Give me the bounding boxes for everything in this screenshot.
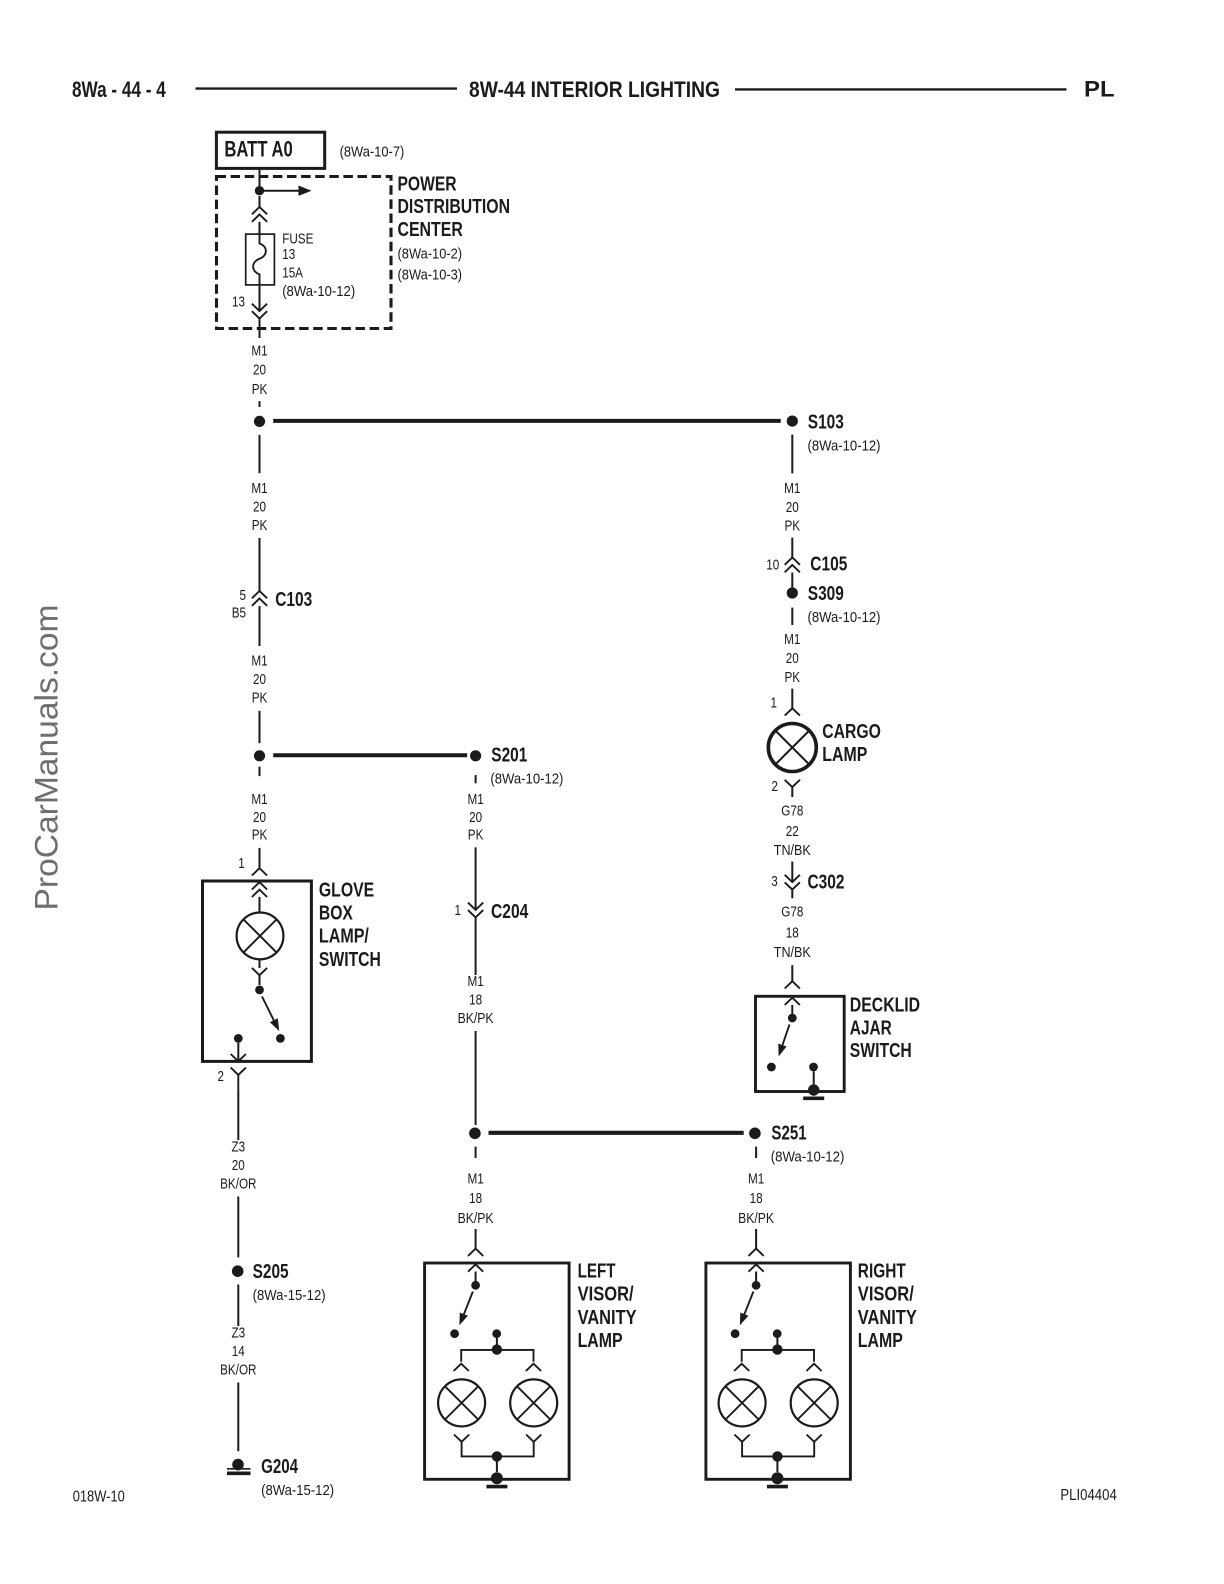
wire below glove box [237,1090,239,1140]
svg-text:PK: PK [252,517,268,534]
wire fork to contact [259,975,261,985]
svg-text:PLI04404: PLI04404 [1060,1487,1116,1504]
header rule right [735,88,1067,90]
connector C302 chevrons [785,875,800,890]
svg-text:15A: 15A [282,264,303,281]
fork above switch contact [252,968,267,975]
svg-text:18: 18 [786,925,799,942]
entry chevron inside visor box [468,1264,483,1271]
cargo lamp [768,724,816,772]
connector C204 chevrons [468,903,483,918]
vanity lamp 1 [719,1379,766,1426]
svg-text:(8Wa-15-12): (8Wa-15-12) [253,1287,326,1304]
svg-text:14: 14 [232,1343,245,1360]
wire contact to lamp bus [776,1338,778,1345]
wire to fuse [259,222,261,234]
connector fork below glove box [231,1068,246,1075]
svg-text:20: 20 [786,650,799,667]
svg-text:5: 5 [240,587,247,604]
wire to left visor lamp [475,1229,477,1249]
wire label Z3 20 BK/OR [220,1138,257,1192]
wire to right visor lamp [755,1229,757,1249]
connector fork at glove box pin 1 [252,868,267,875]
svg-text:(8Wa-10-12): (8Wa-10-12) [490,771,563,788]
svg-text:Z3: Z3 [231,1324,245,1341]
left visor/vanity lamp box [425,1263,569,1479]
wire contact to ground [813,1071,815,1084]
wire label M1 20 PK [784,480,800,535]
svg-text:BK/OR: BK/OR [220,1176,257,1193]
wire fuse to lower connector [259,285,261,311]
svg-text:8W-44 INTERIOR LIGHTING: 8W-44 INTERIOR LIGHTING [469,77,720,102]
power distribution center dashed box [217,177,392,329]
svg-text:8Wa - 44 - 4: 8Wa - 44 - 4 [72,77,166,102]
wire to C204 [475,847,477,910]
fork below lamp 2 [807,1435,822,1442]
svg-text:1: 1 [455,902,462,919]
svg-text:(8Wa-10-3): (8Wa-10-3) [398,267,463,284]
vanity lamp 2 [791,1379,838,1426]
svg-text:M1: M1 [784,480,800,497]
connector fork at left visor pin [468,1249,483,1256]
wire dash below junction [475,1147,477,1158]
glove box lamp/switch box [203,881,312,1061]
switch contact dot left [234,1034,243,1043]
ground at visor box [767,1472,788,1486]
svg-text:DISTRIBUTION: DISTRIBUTION [398,196,511,218]
vanity lamp 1 [438,1379,485,1426]
label LEFT VISOR/ VANITY LAMP [578,1261,638,1353]
label CARGO LAMP [822,721,881,766]
svg-text:POWER: POWER [398,173,458,195]
label GLOVE BOX LAMP/ SWITCH [319,880,381,971]
wire S103 branch horizontal [273,419,781,423]
svg-text:20: 20 [232,1157,245,1174]
svg-text:(8Wa-10-12): (8Wa-10-12) [282,283,355,300]
svg-text:2: 2 [772,778,779,795]
pin labels 5 B5 [232,587,246,622]
svg-text:LAMP: LAMP [858,1330,903,1352]
lamp bus junction dot [492,1344,502,1354]
svg-text:DECKLID: DECKLID [850,994,920,1016]
right visor/vanity lamp box [706,1263,851,1479]
svg-text:PK: PK [252,689,268,706]
wire to S251 junction [475,1031,477,1125]
wire dash below junction [259,767,261,777]
return junction dot [772,1451,782,1461]
wire to S201 junction [259,711,261,743]
wire to switch [755,1272,757,1282]
switch contact dot left [767,1063,776,1072]
fork to lamp 1 [734,1364,749,1371]
wire below S103 [791,435,793,474]
svg-text:GLOVE: GLOVE [319,880,374,902]
svg-text:S205: S205 [253,1261,289,1283]
splice S309 dot [787,587,798,598]
header rule left [196,87,458,89]
lamp bus junction dot [772,1344,782,1354]
svg-text:(8Wa-10-12): (8Wa-10-12) [808,437,881,454]
wire label G78 22 TN/BK [774,802,811,859]
vanity lamp 2 [510,1379,557,1426]
svg-text:S251: S251 [771,1122,806,1144]
svg-text:CENTER: CENTER [398,219,464,241]
wire label M1 20 PK [251,791,267,843]
svg-text:M1: M1 [251,652,267,669]
switch contact dot right [492,1329,501,1338]
wire below C204 [475,918,477,975]
label RIGHT VISOR/ VANITY LAMP [858,1261,918,1353]
svg-text:TN/BK: TN/BK [774,842,811,859]
wire to ground [776,1461,778,1472]
wire junction to connector [259,196,261,207]
lamp return bracket [462,1442,534,1457]
svg-text:20: 20 [469,809,482,826]
fork below lamp 1 [454,1435,469,1442]
wire dash below S251 [755,1147,757,1158]
exit chevron inside glove box [231,1054,246,1061]
lamp return bracket [742,1442,814,1457]
svg-text:(8Wa-10-7): (8Wa-10-7) [340,144,405,161]
wire to C105 [791,538,793,558]
svg-text:RIGHT: RIGHT [858,1261,906,1283]
wire below C103 [259,606,261,646]
svg-text:1: 1 [771,695,778,712]
wire to switch pivot [791,1005,793,1014]
svg-text:3: 3 [771,873,778,890]
wire label G78 18 TN/BK [774,904,811,961]
entry chevron inside decklid box [785,998,800,1005]
svg-text:13: 13 [232,294,245,311]
wire lamp to switch fork [259,959,261,968]
splice S205 dot [232,1265,244,1277]
svg-text:LAMP/: LAMP/ [319,926,369,948]
label DECKLID AJAR SWITCH [850,994,920,1062]
svg-text:VISOR/: VISOR/ [578,1284,634,1306]
connector fork at cargo lamp pin 2 [785,780,800,787]
wire label M1 20 PK [467,791,483,843]
switch contact dot right [773,1329,782,1338]
svg-text:M1: M1 [251,343,267,360]
wire label M1 20 PK [251,652,267,706]
svg-text:S201: S201 [491,745,527,767]
svg-text:LEFT: LEFT [578,1261,616,1283]
wire to decklid switch [791,965,793,981]
svg-text:(8Wa-10-2): (8Wa-10-2) [398,245,463,262]
fork below lamp 2 [526,1435,541,1442]
svg-text:CARGO: CARGO [822,721,881,743]
svg-text:PL: PL [1084,77,1115,102]
svg-text:G204: G204 [261,1456,299,1478]
svg-text:B5: B5 [232,604,246,621]
svg-text:LAMP: LAMP [822,744,867,766]
wire contact to lamp bus [496,1338,498,1345]
switch arm arrow [459,1292,473,1326]
junction dot S251 branch [469,1128,481,1140]
switch arm arrow [778,1024,789,1056]
wire to cargo lamp [791,689,793,709]
svg-text:(8Wa-15-12): (8Wa-15-12) [261,1482,334,1499]
connector fork at decklid switch [785,981,800,988]
svg-text:PK: PK [468,827,484,844]
ground at visor box [486,1472,507,1486]
svg-text:PK: PK [785,518,801,535]
wire to ground G204 [237,1383,239,1452]
label POWER DISTRIBUTION CENTER [398,173,511,283]
svg-text:BK/PK: BK/PK [738,1210,774,1227]
svg-text:VISOR/: VISOR/ [858,1284,914,1306]
svg-text:20: 20 [253,498,266,515]
svg-text:SWITCH: SWITCH [850,1040,912,1062]
wire label M1 20 PK [251,343,267,398]
svg-text:G78: G78 [781,904,803,921]
wire to C103 [259,538,261,591]
svg-text:BOX: BOX [319,903,354,925]
svg-text:PK: PK [252,827,268,844]
svg-text:SWITCH: SWITCH [319,949,381,971]
svg-text:C105: C105 [810,554,847,576]
connector chevrons below fuse [252,304,267,319]
svg-text:AJAR: AJAR [850,1017,892,1039]
svg-text:G78: G78 [781,802,803,819]
svg-text:BATT A0: BATT A0 [224,137,292,162]
wire dash below S201 [475,775,477,783]
connector C103 chevrons [252,591,267,606]
svg-text:20: 20 [253,362,266,379]
svg-text:22: 22 [786,823,799,840]
wire dash below S309 [791,608,793,625]
fork to lamp 1 [454,1364,469,1371]
svg-text:M1: M1 [748,1170,764,1187]
svg-text:20: 20 [786,499,799,516]
wire dash above junction [259,401,261,407]
switch contact dot left [450,1329,459,1338]
svg-text:TN/BK: TN/BK [774,944,811,961]
wire label M1 18 BK/PK [458,1170,494,1227]
battery feed box BATT A0 [216,132,324,168]
wire BATT to junction [259,168,261,190]
wire to glove box [259,848,261,868]
decklid ajar switch box [756,996,845,1091]
wire to S205 [237,1197,239,1258]
glove box lamp [237,913,284,960]
splice S103 dot [787,416,798,427]
svg-text:M1: M1 [251,480,267,497]
svg-text:C302: C302 [808,871,845,893]
svg-text:C204: C204 [491,901,529,923]
wire label M1 18 BK/PK [458,973,494,1027]
svg-text:Z3: Z3 [231,1138,245,1155]
svg-text:M1: M1 [784,631,800,648]
svg-text:018W-10: 018W-10 [73,1489,125,1506]
wire label M1 20 PK [251,480,267,534]
connector fork at right visor pin [749,1249,764,1256]
wire to ground [496,1461,498,1472]
svg-text:BK/OR: BK/OR [220,1362,257,1379]
wire out of PDC [259,319,261,339]
svg-text:ProCarManuals.com: ProCarManuals.com [29,605,65,911]
svg-text:20: 20 [253,809,266,826]
junction dot left S103 branch [254,416,265,427]
svg-text:18: 18 [469,1190,482,1207]
entry chevron inside visor box [749,1264,764,1271]
svg-text:M1: M1 [467,973,483,990]
fuse 13 15A [246,234,275,285]
wire contact to exit chevron [237,1043,239,1062]
svg-text:LAMP: LAMP [578,1330,623,1352]
lamp bus bracket [461,1350,533,1362]
connector chevrons above fuse [252,207,267,222]
svg-text:(8Wa-10-12): (8Wa-10-12) [808,609,881,626]
switch arm arrow [740,1292,754,1326]
switch contact dot right [276,1034,285,1043]
svg-text:M1: M1 [251,791,267,808]
wire below S205 [237,1285,239,1327]
svg-text:20: 20 [253,671,266,688]
svg-text:18: 18 [469,992,482,1009]
wire label M1 20 PK [784,631,800,686]
wire label Z3 14 BK/OR [220,1324,257,1378]
switch pivot dot [255,986,264,995]
switch contact dot left [731,1329,740,1338]
connector C105 chevrons [785,558,800,573]
ground at decklid box [803,1084,824,1098]
return junction dot [492,1451,502,1461]
svg-text:VANITY: VANITY [578,1307,638,1329]
wire below C105 [791,573,793,588]
wire below C302 [791,890,793,898]
wire S251 branch horizontal [489,1131,744,1135]
switch arm arrow [262,997,279,1032]
wire to glove lamp [259,897,261,913]
svg-text:BK/PK: BK/PK [458,1010,494,1027]
svg-text:10: 10 [766,556,779,573]
svg-text:13: 13 [282,246,295,263]
svg-text:M1: M1 [467,1170,483,1187]
switch pivot dot [752,1281,761,1290]
svg-text:VANITY: VANITY [858,1307,918,1329]
lamp bus bracket [742,1350,814,1362]
svg-text:S103: S103 [808,411,844,433]
junction dot left S201 branch [254,750,265,761]
splice S251 dot [749,1128,761,1140]
svg-text:M1: M1 [467,791,483,808]
svg-text:C103: C103 [275,589,312,611]
wire label M1 18 BK/PK [738,1170,774,1227]
svg-text:FUSE: FUSE [282,230,313,247]
fork to lamp 2 [806,1364,821,1371]
svg-text:PK: PK [252,381,268,398]
switch pivot dot [471,1281,480,1290]
connector chevrons inside glove box [252,882,267,897]
junction dot in PDC [255,186,264,195]
wire below cargo lamp [791,787,793,797]
ground G204 [227,1459,251,1474]
fuse labels FUSE 13 15A (8Wa-10-12) [282,230,355,300]
wire below junction [259,435,261,473]
switch pivot dot [788,1014,797,1023]
svg-text:(8Wa-10-12): (8Wa-10-12) [771,1149,845,1166]
svg-text:18: 18 [750,1190,763,1207]
fork below lamp 1 [735,1435,750,1442]
wire S201 branch horizontal [273,753,467,757]
svg-text:2: 2 [218,1068,225,1085]
fork to lamp 2 [526,1364,541,1371]
arrow feed to other circuits [260,186,312,196]
svg-text:1: 1 [238,855,245,872]
wire to C302 [791,862,793,883]
wire to switch [475,1272,477,1282]
svg-text:PK: PK [785,669,801,686]
svg-text:S309: S309 [808,583,844,605]
switch contact dot right [809,1063,818,1072]
connector fork at cargo lamp pin 1 [785,708,800,715]
splice S201 dot [470,750,481,761]
svg-text:BK/PK: BK/PK [458,1210,494,1227]
